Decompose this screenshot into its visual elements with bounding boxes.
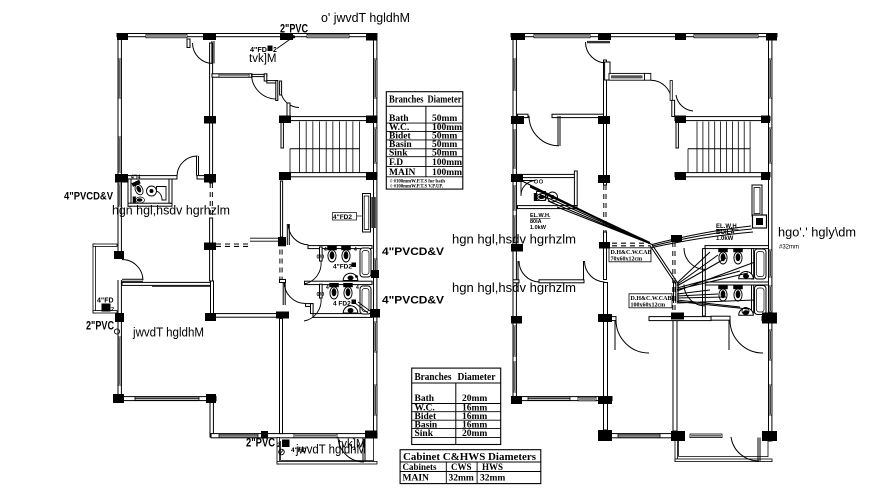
svg-text:jwvdT hgldhM: jwvdT hgldhM [132,326,204,340]
svg-text:20mm: 20mm [462,394,487,404]
svg-text:2"PVC: 2"PVC [280,24,308,36]
svg-text:hgn hgl,hsdv hgrhzlm: hgn hgl,hsdv hgrhzlm [452,281,576,295]
svg-text:4"|4: 4"|4 [131,175,141,181]
svg-text:4: 4 [354,247,357,253]
svg-text:0/0: 0/0 [317,255,325,261]
svg-text:tvk]M: tvk]M [249,53,276,65]
svg-text:CWS: CWS [451,462,472,472]
svg-text:Cabinet C&HWS Diameters: Cabinet C&HWS Diameters [403,452,536,463]
svg-text:MAIN: MAIN [389,168,416,178]
svg-text:Sink: Sink [415,429,434,439]
svg-text:32mm: 32mm [449,474,474,484]
svg-text:2: 2 [111,307,114,313]
svg-text:4: 4 [356,285,359,291]
svg-text:32mm: 32mm [480,474,505,484]
svg-text:D.H&C.W.CAB: D.H&C.W.CAB [611,250,652,256]
svg-text:#32mm: #32mm [779,245,799,251]
svg-text:Diameter: Diameter [428,95,462,106]
svg-text:hgn hgl,hsdv hgrhzlm: hgn hgl,hsdv hgrhzlm [452,233,576,247]
svg-text:4"PVCD&V: 4"PVCD&V [382,246,445,258]
svg-text:hgn hgl,hsdv hgrhzlm: hgn hgl,hsdv hgrhzlm [112,204,230,218]
svg-text:HWS: HWS [482,462,503,472]
svg-text:hgo'.' hgly\dm: hgo'.' hgly\dm [778,226,856,240]
svg-text:4"FD2: 4"FD2 [333,264,352,271]
svg-text:tvk]M: tvk]M [338,439,365,451]
svg-text:F.D: F.D [389,158,403,168]
svg-text:2"PVC: 2"PVC [86,321,114,333]
svg-text:1.0kW: 1.0kW [716,236,734,242]
svg-text:2"PVC: 2"PVC [246,438,275,450]
svg-text:D.H&C.W.CAB: D.H&C.W.CAB [631,296,672,302]
svg-text:100mm: 100mm [432,158,462,168]
svg-text:4: 4 [326,285,329,291]
svg-text:20mm: 20mm [462,429,487,439]
svg-text:100x60x12cm: 100x60x12cm [631,303,666,309]
svg-text:o' jwvdT hgldhM: o' jwvdT hgldhM [321,11,410,25]
svg-text:4: 4 [324,247,327,253]
svg-text:Cabinets: Cabinets [403,462,438,472]
svg-text:100mm: 100mm [432,168,462,178]
svg-text:◊ #100mmW.P.T.S V.P.UP.: ◊ #100mmW.P.T.S V.P.UP. [390,184,443,190]
svg-text:4"FD: 4"FD [97,298,114,305]
svg-text:4"PVCD&V: 4"PVCD&V [64,191,114,203]
svg-text:0/0: 0/0 [317,292,325,298]
svg-text:Branches: Branches [415,372,452,383]
svg-text:4 FD2: 4 FD2 [333,301,351,308]
svg-text:70x60x12cm: 70x60x12cm [611,257,643,263]
svg-text:MAIN: MAIN [403,474,430,484]
svg-text:Diameter: Diameter [458,372,497,383]
svg-text:Branches: Branches [389,95,424,106]
svg-text:1.0kW: 1.0kW [530,225,547,231]
svg-text:Bath: Bath [415,394,435,404]
svg-text:◊ #100mmW.P.T.S for bath: ◊ #100mmW.P.T.S for bath [390,178,445,184]
svg-text:4"PVCD&V: 4"PVCD&V [382,295,445,307]
